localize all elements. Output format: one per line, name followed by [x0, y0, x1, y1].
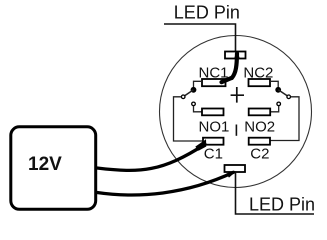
- wire 12V to bottom LED pin: [97, 171, 236, 195]
- switch body circle: [160, 36, 312, 188]
- left pole link wire: [194, 81, 203, 88]
- orientation cross: [231, 87, 244, 103]
- bottom LED pin leader line: [236, 172, 315, 214]
- terminal NC2: [249, 79, 271, 86]
- wire right NC contact to C2: [270, 97, 299, 141]
- right NC contact: [287, 95, 291, 99]
- svg-text:C2: C2: [250, 146, 269, 163]
- bottom LED pin terminal: [225, 165, 246, 172]
- svg-text:LED Pin: LED Pin: [174, 3, 240, 23]
- right NO contact: [277, 102, 281, 106]
- right switch lever: [278, 90, 289, 97]
- left NC contact: [181, 95, 185, 99]
- svg-text:12V: 12V: [28, 154, 62, 175]
- terminal C2: [249, 138, 270, 145]
- 12V source box: [11, 127, 96, 210]
- top LED pin leader line: [164, 24, 236, 52]
- wire top LED pin to NC1: [222, 52, 240, 83]
- terminal NO1: [202, 109, 224, 116]
- terminal C1: [203, 138, 224, 145]
- left NO contact: [192, 102, 196, 106]
- left pole junction dot: [191, 87, 197, 93]
- terminal NO2: [249, 109, 271, 116]
- right pole junction dot: [275, 87, 281, 93]
- wire left NC contact to C1: [174, 97, 203, 141]
- orientation bar: [235, 125, 237, 136]
- wire right NO contact to NO2: [270, 106, 279, 112]
- right pole link wire: [270, 81, 278, 88]
- wire 12V to C1: [97, 139, 206, 170]
- left switch lever: [183, 90, 193, 97]
- top LED pin terminal: [225, 52, 246, 59]
- svg-text:NO1: NO1: [199, 118, 230, 135]
- wire left NO contact to NO1: [194, 106, 203, 112]
- svg-text:LED Pin: LED Pin: [249, 195, 315, 215]
- svg-text:C1: C1: [204, 146, 223, 163]
- terminal NC1: [202, 79, 226, 86]
- svg-text:NO2: NO2: [244, 118, 275, 135]
